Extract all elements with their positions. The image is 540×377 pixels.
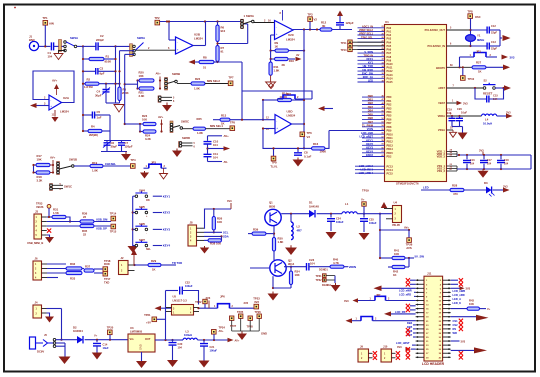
svg-text:VIDIN: VIDIN bbox=[349, 265, 356, 269]
power arrow above C9 bbox=[337, 11, 343, 17]
svg-text:TP13: TP13 bbox=[341, 49, 348, 52]
reset switch S2 bbox=[483, 87, 486, 90]
ground below USB bbox=[47, 235, 50, 237]
inductor L1 bbox=[342, 212, 357, 214]
svg-text:LED_A: LED_A bbox=[453, 297, 462, 301]
resistor R19 bbox=[90, 164, 103, 167]
svg-text:Y1: Y1 bbox=[477, 34, 481, 38]
svg-text:9014: 9014 bbox=[288, 262, 295, 266]
svg-text:J11: J11 bbox=[427, 272, 432, 276]
wire VDD rail bbox=[457, 154, 531, 156]
power AV+ at R10 bbox=[296, 57, 302, 62]
svg-text:PD2: PD2 bbox=[387, 156, 392, 159]
svg-text:BNC: BNC bbox=[29, 38, 35, 42]
svg-text:100uF: 100uF bbox=[336, 220, 344, 224]
svg-text:DB4: DB4 bbox=[407, 321, 413, 325]
svg-text:C15: C15 bbox=[493, 94, 498, 98]
svg-text:35: 35 bbox=[382, 70, 384, 72]
MCU pin PB15 wire bbox=[362, 152, 385, 154]
svg-text:3V2: 3V2 bbox=[244, 301, 249, 305]
svg-text:220pF: 220pF bbox=[96, 38, 104, 42]
wire joining R17 R18 bbox=[33, 165, 35, 173]
MCU pin PA8 wire bbox=[358, 56, 385, 58]
capacitor C13 bbox=[471, 45, 488, 47]
op-amp U2C bbox=[275, 21, 294, 40]
svg-text:37: 37 bbox=[382, 77, 384, 79]
svg-text:910K: 910K bbox=[105, 60, 112, 64]
ground below C24 bbox=[326, 232, 337, 239]
svg-text:59: 59 bbox=[382, 144, 384, 146]
net label 5V_SW bbox=[409, 257, 414, 259]
svg-text:DB6: DB6 bbox=[368, 116, 374, 120]
wire R14 left to input bbox=[262, 100, 264, 120]
wire C1 to SW1A bbox=[54, 45, 64, 47]
svg-text:TP7: TP7 bbox=[228, 75, 234, 79]
svg-text:JP7: JP7 bbox=[376, 294, 381, 297]
connector J4 bbox=[33, 305, 42, 318]
op-amp U2A bbox=[49, 95, 62, 110]
LCD header pin row 20 stubs bbox=[416, 356, 424, 358]
MCU lower pins PC13-15 bbox=[355, 165, 385, 167]
svg-text:R43: R43 bbox=[469, 299, 474, 303]
input arrow U5 bbox=[155, 306, 162, 311]
svg-text:SW7: SW7 bbox=[139, 238, 145, 242]
svg-text:PB13: PB13 bbox=[387, 144, 394, 147]
svg-text:LED_K: LED_K bbox=[453, 301, 462, 305]
svg-text:3.3K: 3.3K bbox=[37, 179, 43, 183]
svg-text:1.8K: 1.8K bbox=[194, 87, 200, 91]
svg-text:1N4148: 1N4148 bbox=[309, 204, 319, 208]
svg-text:R16: R16 bbox=[313, 142, 319, 146]
DC jack J5 bbox=[30, 337, 36, 349]
wire AV+ to C10 bbox=[208, 135, 223, 137]
svg-text:+: + bbox=[50, 104, 52, 108]
svg-text:38: 38 bbox=[382, 80, 384, 82]
svg-text:PA15: PA15 bbox=[387, 81, 394, 84]
svg-text:10uF: 10uF bbox=[461, 110, 467, 114]
resistor R10 bbox=[270, 51, 272, 59]
wire U2B output bbox=[193, 45, 206, 47]
svg-text:100uF: 100uF bbox=[210, 348, 218, 352]
svg-text:100uF: 100uF bbox=[185, 284, 193, 288]
svg-text:3V3: 3V3 bbox=[397, 345, 402, 349]
svg-text:UB_RXD: UB_RXD bbox=[362, 68, 373, 72]
svg-text:36: 36 bbox=[382, 73, 384, 75]
svg-text:R39: R39 bbox=[253, 227, 259, 231]
ground arrow S2 bbox=[504, 85, 511, 91]
svg-text:PB9: PB9 bbox=[387, 130, 392, 133]
test point TP5 bbox=[230, 126, 235, 131]
jumper JP2 bbox=[283, 95, 295, 99]
svg-text:GND: GND bbox=[261, 331, 267, 335]
MCU pin PA1 wire bbox=[358, 30, 385, 32]
svg-text:3V3: 3V3 bbox=[503, 184, 508, 188]
capacitor C1 bbox=[51, 42, 53, 50]
svg-text:ENC_1A: ENC_1A bbox=[363, 75, 373, 79]
ground arrow TP31 bbox=[335, 283, 337, 285]
wire Q1 collector row bbox=[281, 213, 309, 215]
MCU pin PA13 wire bbox=[358, 74, 385, 76]
svg-text:1.8K: 1.8K bbox=[278, 240, 284, 244]
svg-text:AV+: AV+ bbox=[158, 115, 164, 119]
resistor R36u bbox=[80, 220, 94, 223]
svg-text:52: 52 bbox=[382, 118, 384, 120]
svg-text:V+: V+ bbox=[94, 334, 98, 338]
ground pin 11 U2A bbox=[54, 110, 56, 117]
LCD header pin row 5 stubs bbox=[416, 295, 424, 297]
svg-text:KEY2: KEY2 bbox=[366, 142, 373, 146]
svg-text:PB6: PB6 bbox=[387, 119, 392, 122]
wires SW2A contacts left bbox=[120, 50, 135, 52]
svg-text:104: 104 bbox=[48, 55, 53, 59]
junction at BNC node bbox=[44, 45, 46, 47]
svg-text:TP31: TP31 bbox=[316, 275, 323, 278]
svg-text:TP14: TP14 bbox=[110, 212, 117, 216]
svg-text:LCD_RS: LCD_RS bbox=[395, 310, 406, 314]
MCU pin PB12 wire bbox=[362, 141, 385, 143]
svg-text:LCD_nRST: LCD_nRST bbox=[359, 135, 373, 139]
resistor R26 bbox=[213, 209, 215, 217]
svg-text:TP19: TP19 bbox=[362, 189, 369, 193]
svg-text:LM324: LM324 bbox=[60, 110, 69, 114]
resistor R2 bbox=[83, 83, 85, 85]
MCU pin PB9 wire bbox=[362, 130, 385, 132]
jumper JP6 bbox=[218, 304, 230, 309]
wire D1 to L1 bbox=[317, 213, 342, 215]
wire +5V node up bbox=[165, 308, 167, 340]
test point TP6 bbox=[300, 132, 305, 137]
svg-text:L1: L1 bbox=[345, 202, 349, 206]
svg-text:R27: R27 bbox=[476, 61, 482, 65]
svg-text:SW1B: SW1B bbox=[69, 158, 77, 162]
capacitor C20 bbox=[459, 116, 461, 118]
wire J8 pin3 SDA bbox=[204, 235, 222, 237]
ground below JP3 pin1 bbox=[144, 171, 146, 173]
capacitor C10 bbox=[204, 142, 212, 144]
svg-text:LM78M05: LM78M05 bbox=[130, 330, 143, 334]
wire SW2B to R22 bbox=[177, 83, 191, 85]
switch SW2B bbox=[165, 78, 168, 91]
capacitor C18 bbox=[500, 155, 502, 159]
svg-text:J8: J8 bbox=[190, 220, 193, 224]
svg-text:57: 57 bbox=[382, 136, 384, 138]
wire R7 junction to SW3A bbox=[218, 43, 248, 45]
MCU pin PA10 wire bbox=[358, 63, 385, 65]
resistor R21 bbox=[139, 87, 154, 90]
svg-text:R28: R28 bbox=[452, 183, 458, 187]
svg-text:C3: C3 bbox=[100, 67, 104, 71]
svg-text:J3: J3 bbox=[35, 209, 38, 213]
resistor R41 bbox=[380, 257, 392, 259]
svg-text:104: 104 bbox=[213, 156, 218, 160]
svg-text:50: 50 bbox=[382, 110, 384, 112]
switch SW1B bbox=[57, 162, 60, 175]
connector J2 bbox=[119, 261, 129, 275]
test point TP15 bbox=[111, 224, 116, 229]
test point TP7 bbox=[228, 81, 233, 86]
svg-text:DC9V: DC9V bbox=[37, 350, 44, 354]
svg-text:DB7: DB7 bbox=[368, 120, 374, 124]
svg-text:TR TXD: TR TXD bbox=[172, 261, 182, 265]
wire TP8 to crystal bbox=[470, 18, 472, 35]
test point TP13 bbox=[348, 47, 352, 51]
svg-text:R37: R37 bbox=[85, 264, 91, 268]
svg-text:SW6: SW6 bbox=[139, 222, 145, 226]
LCD header pin row 6 stubs bbox=[416, 299, 424, 301]
svg-text:V_SDN: V_SDN bbox=[364, 50, 373, 54]
svg-text:PB10: PB10 bbox=[387, 133, 394, 136]
test point TP14 bbox=[111, 216, 116, 221]
capacitor C22 on loop bbox=[166, 290, 179, 292]
svg-text:KEY3: KEY3 bbox=[163, 228, 171, 232]
capacitor C8 bbox=[297, 148, 299, 152]
ground arrow TP group bbox=[241, 332, 243, 334]
resistor R25 bbox=[193, 127, 206, 130]
resistor R30 bbox=[273, 226, 275, 238]
MCU pin PA9 wire bbox=[358, 59, 385, 61]
svg-text:R38: R38 bbox=[210, 242, 216, 246]
svg-text:1.8 5M: 1.8 5M bbox=[84, 85, 93, 89]
svg-text:2K: 2K bbox=[282, 63, 286, 67]
svg-text:DB3: DB3 bbox=[368, 105, 374, 109]
svg-text:R13: R13 bbox=[221, 114, 227, 118]
resistor R11 bbox=[270, 59, 272, 62]
svg-text:AV-: AV- bbox=[224, 160, 229, 164]
connector J8 bbox=[188, 225, 197, 246]
LCD header pin row 4 stubs bbox=[416, 291, 424, 293]
svg-text:TP3: TP3 bbox=[307, 12, 313, 16]
connector J10 bbox=[381, 349, 392, 362]
wire U4 output net bbox=[379, 214, 381, 258]
svg-text:LM1117-3.3: LM1117-3.3 bbox=[173, 298, 188, 302]
wire output down to row bbox=[303, 147, 305, 149]
ground below SW2D bbox=[176, 149, 178, 151]
svg-text:V+: V+ bbox=[361, 197, 365, 201]
svg-text:RESET: RESET bbox=[483, 92, 493, 96]
no-ERC X right rows 1-2 bbox=[459, 278, 463, 282]
svg-text:32: 32 bbox=[382, 59, 384, 61]
wire R28 to D3 bbox=[464, 189, 486, 191]
no-ERC X left rows 8-9 bbox=[406, 304, 410, 308]
test point TP4 bbox=[131, 164, 136, 169]
IC U1 body bbox=[385, 25, 447, 182]
power 3V3 at JP1 bbox=[502, 55, 509, 60]
svg-text:R25: R25 bbox=[197, 117, 203, 121]
wire to C6 C7 rail bbox=[109, 131, 111, 141]
svg-text:TP18: TP18 bbox=[104, 259, 111, 263]
switch SW1D section bbox=[158, 96, 161, 103]
svg-text:22pF: 22pF bbox=[491, 47, 497, 51]
ground arrow R27 bbox=[503, 65, 510, 71]
wire R8 node down bbox=[241, 62, 243, 91]
net VCIN long wire bbox=[329, 130, 385, 132]
svg-text:2M(96): 2M(96) bbox=[89, 133, 98, 137]
resistor R33 bbox=[66, 271, 82, 274]
svg-text:10uF: 10uF bbox=[103, 346, 109, 350]
wire output to R9 and U2D bbox=[303, 30, 305, 149]
svg-text:10K: 10K bbox=[37, 158, 42, 162]
svg-text:3V3: 3V3 bbox=[463, 102, 468, 106]
svg-text:KEY1: KEY1 bbox=[366, 138, 373, 142]
svg-text:PA10: PA10 bbox=[387, 63, 394, 66]
svg-text:SW2A: SW2A bbox=[137, 36, 145, 40]
wire Q2 collector out bbox=[284, 266, 306, 268]
svg-text:J4: J4 bbox=[35, 300, 38, 304]
svg-text:PB14: PB14 bbox=[387, 148, 394, 151]
svg-text:KEY3: KEY3 bbox=[366, 146, 373, 150]
svg-text:U3: U3 bbox=[130, 326, 134, 330]
wire R19 to TP4 bbox=[103, 165, 131, 167]
MCU pin PB0 wire bbox=[362, 96, 385, 98]
svg-text:R2: R2 bbox=[87, 77, 91, 81]
wire Q2 emitter bbox=[272, 276, 274, 288]
svg-text:LCD_nRD 4: LCD_nRD 4 bbox=[359, 171, 374, 175]
svg-text:-: - bbox=[50, 98, 51, 102]
svg-text:1.8K: 1.8K bbox=[197, 131, 203, 135]
svg-text:U5: U5 bbox=[173, 295, 177, 299]
svg-text:1K: 1K bbox=[393, 273, 397, 277]
wire D2 to U3 bbox=[85, 339, 128, 341]
svg-text:TRIG SEL: TRIG SEL bbox=[361, 35, 373, 39]
test point TP1 bbox=[43, 21, 48, 26]
svg-text:TP23: TP23 bbox=[253, 296, 260, 300]
LCD header pin row 7 stubs bbox=[416, 304, 424, 306]
LCD header pin row 1 stubs bbox=[416, 279, 424, 281]
resistor R37 bbox=[82, 268, 84, 270]
svg-text:USB_MINI_B: USB_MINI_B bbox=[27, 241, 43, 245]
wire to R23 row bbox=[125, 123, 140, 125]
push button SW7 bbox=[133, 245, 137, 247]
capacitor C17 bbox=[483, 155, 485, 159]
svg-text:U2A: U2A bbox=[63, 96, 70, 100]
svg-text:LCD_nWR: LCD_nWR bbox=[453, 289, 466, 293]
svg-text:TL_PWM: TL_PWM bbox=[362, 124, 373, 128]
svg-text:49: 49 bbox=[382, 106, 384, 109]
svg-text:AV+: AV+ bbox=[156, 72, 162, 76]
analog ground below R11 bbox=[270, 75, 272, 82]
wire C11 to AVminus bbox=[207, 157, 209, 161]
svg-text:PA9: PA9 bbox=[387, 59, 392, 62]
svg-text:ENC2: ENC2 bbox=[366, 153, 373, 157]
node A junction bbox=[82, 45, 84, 47]
svg-text:T.LVL: T.LVL bbox=[270, 164, 278, 168]
svg-text:PB5: PB5 bbox=[387, 115, 392, 118]
regulator U5 bbox=[172, 305, 194, 316]
svg-text:PA12: PA12 bbox=[387, 70, 394, 73]
svg-text:BOOT0: BOOT0 bbox=[436, 66, 445, 70]
wire joining R23 R24 bbox=[139, 124, 141, 132]
resistor R29 bbox=[135, 264, 149, 266]
ground below C4 R3 bbox=[114, 105, 124, 113]
ground below C25 bbox=[359, 233, 370, 240]
no-ERC X right rows 11-13 bbox=[459, 319, 463, 323]
svg-text:3V3: 3V3 bbox=[344, 299, 349, 303]
wire to TP26 bbox=[380, 229, 409, 231]
svg-text:SW2D: SW2D bbox=[182, 136, 190, 140]
svg-text:48: 48 bbox=[382, 102, 384, 105]
svg-text:SW2C: SW2C bbox=[181, 120, 189, 124]
wire emitter to R34 bbox=[273, 287, 291, 289]
wire SW1B to R19 bbox=[74, 165, 90, 167]
svg-text:60: 60 bbox=[382, 147, 384, 149]
svg-text:VDDA: VDDA bbox=[438, 114, 445, 118]
MCU pin PA6 wire bbox=[358, 49, 385, 51]
wire SW2A lower drop bbox=[124, 54, 126, 124]
wire long row3 with arrow bbox=[374, 286, 382, 292]
wire SW4 to net bbox=[153, 195, 162, 197]
svg-text:R19: R19 bbox=[92, 161, 98, 165]
wire key bus bbox=[132, 196, 134, 246]
svg-text:3V3: 3V3 bbox=[227, 199, 232, 203]
MCU pin PD2 wire bbox=[362, 156, 385, 158]
svg-text:LCD_nRD: LCD_nRD bbox=[399, 293, 411, 297]
svg-text:LED: LED bbox=[368, 79, 373, 83]
test point TP2 bbox=[155, 20, 160, 25]
resistor R8 bbox=[199, 60, 214, 63]
wire J8 pin1 pullup bbox=[204, 209, 231, 228]
svg-text:TP8: TP8 bbox=[467, 9, 473, 13]
MCU pin PB11 wire bbox=[362, 137, 385, 139]
LCD header pin row 18 stubs bbox=[416, 348, 424, 350]
ground below jack bbox=[59, 357, 71, 365]
svg-text:104: 104 bbox=[213, 143, 218, 147]
resistor R24 bbox=[143, 130, 156, 133]
svg-text:TP25: TP25 bbox=[237, 310, 244, 314]
capacitor C5 bbox=[83, 114, 92, 116]
wire SW2A top to node B bbox=[116, 45, 134, 47]
jumper JP7 bbox=[358, 300, 375, 302]
svg-text:3V3: 3V3 bbox=[510, 55, 515, 59]
test point TP26 bbox=[407, 238, 412, 243]
svg-text:C14: C14 bbox=[103, 342, 108, 346]
svg-text:LCD_nRD: LCD_nRD bbox=[453, 293, 465, 297]
svg-text:KEY2: KEY2 bbox=[163, 211, 171, 215]
svg-text:CS1: CS1 bbox=[453, 319, 459, 323]
LCD header pin row 16 stubs bbox=[416, 340, 424, 342]
svg-text:+: + bbox=[276, 126, 278, 130]
svg-text:PB12: PB12 bbox=[387, 141, 394, 144]
wire L4 to 3V3 bbox=[497, 115, 506, 117]
test point TP20 bbox=[108, 330, 113, 335]
svg-text:TP17: TP17 bbox=[104, 277, 111, 281]
wire TP ground join bbox=[232, 330, 260, 332]
svg-text:Vin: Vin bbox=[130, 337, 134, 341]
ground below C6 C7 bbox=[125, 152, 127, 155]
svg-text:-: - bbox=[177, 41, 178, 45]
svg-text:25: 25 bbox=[382, 33, 384, 35]
svg-text:R33: R33 bbox=[70, 277, 76, 281]
wire joining R20 R21 bbox=[137, 81, 139, 89]
svg-text:1K: 1K bbox=[275, 45, 279, 49]
resistor R34 bbox=[289, 271, 292, 285]
svg-text:J10: J10 bbox=[383, 344, 388, 348]
svg-text:V2: V2 bbox=[314, 18, 318, 22]
svg-text:TP5: TP5 bbox=[230, 121, 236, 125]
test point TP16 bbox=[103, 267, 108, 272]
capacitor C7 bbox=[121, 141, 123, 143]
svg-text:PB7: PB7 bbox=[387, 122, 392, 125]
svg-text:L3: L3 bbox=[186, 329, 190, 333]
test point TP12 bbox=[348, 44, 352, 48]
ground below C8 bbox=[297, 158, 299, 160]
svg-text:DB5: DB5 bbox=[368, 112, 374, 116]
capacitor C9 bbox=[339, 26, 341, 30]
svg-text:SDA: SDA bbox=[223, 235, 229, 239]
svg-text:PCLK/OSC_OUT: PCLK/OSC_OUT bbox=[425, 28, 446, 32]
svg-text:LCD HEADER: LCD HEADER bbox=[422, 362, 445, 366]
svg-text:AV+: AV+ bbox=[50, 156, 56, 160]
wire U2D plus loop bbox=[263, 129, 304, 149]
